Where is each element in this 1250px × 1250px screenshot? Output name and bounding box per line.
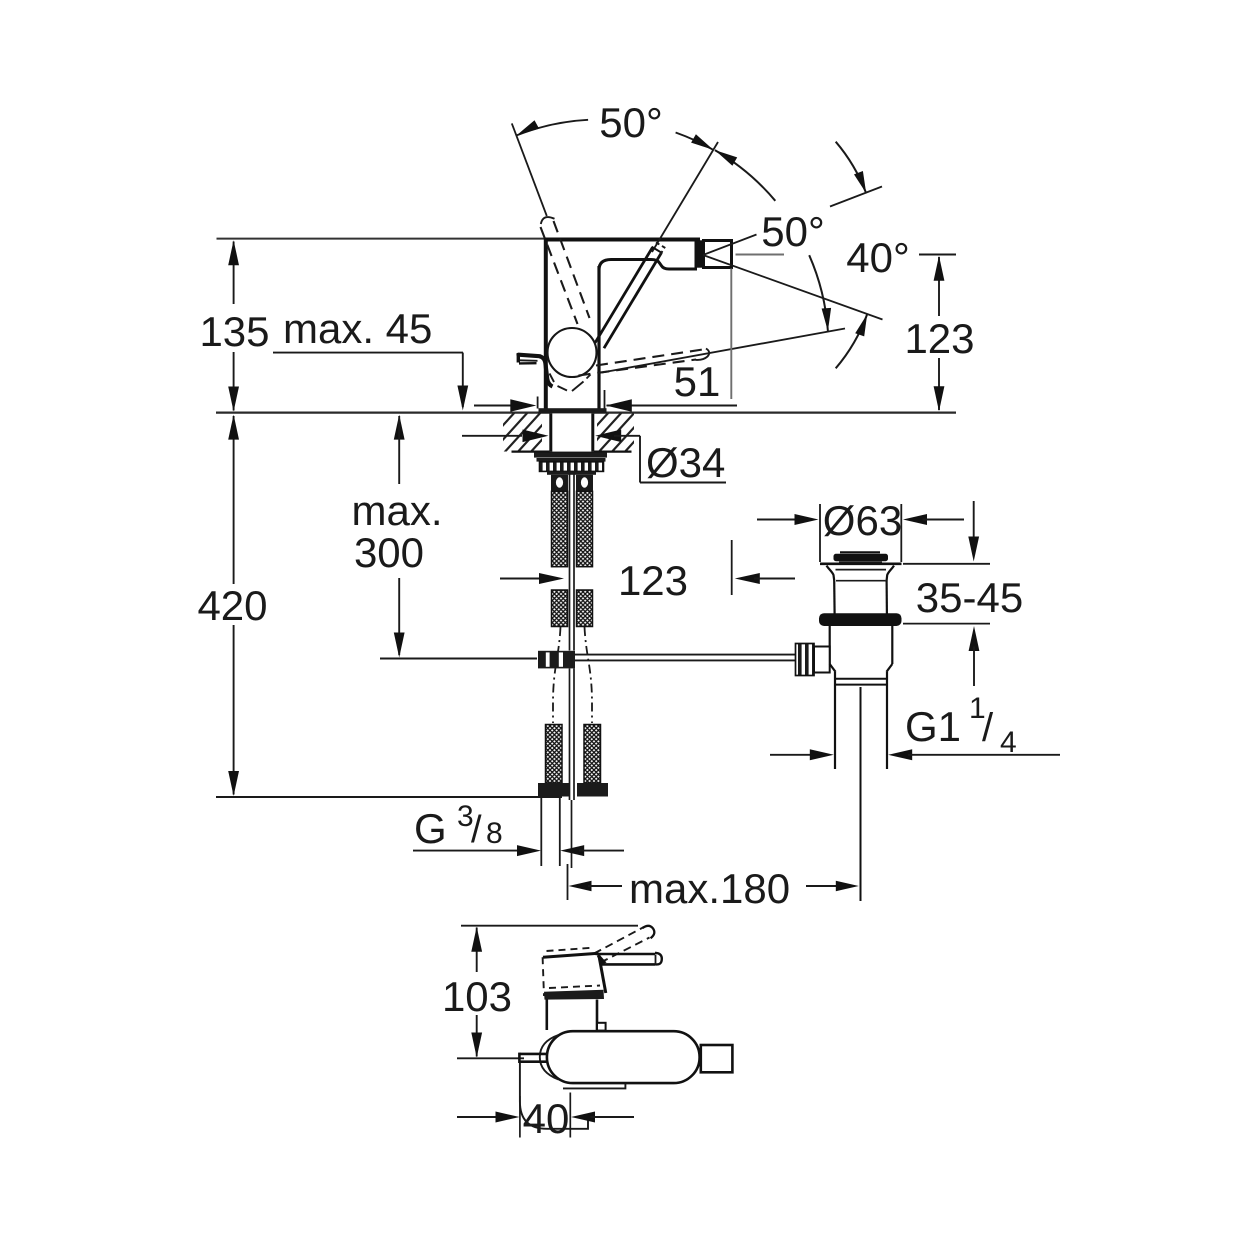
dim line y405 right shaft <box>607 405 738 407</box>
drain side connector <box>814 647 830 673</box>
spout underside with step <box>599 260 697 271</box>
drain body taper left <box>830 664 836 672</box>
hose tail right <box>585 627 593 723</box>
topview upper ref line <box>461 925 638 927</box>
G38 fitting body left <box>546 725 563 784</box>
topview lower ref line <box>457 1057 524 1059</box>
upper 40deg line seg1 <box>703 235 757 256</box>
G38 arrow left-pointing <box>560 845 584 856</box>
pull-rod knob bend <box>540 356 553 386</box>
handle lever outline upper edge <box>604 253 662 348</box>
svg-text:G1: G1 <box>905 703 961 750</box>
handle lever end cap <box>646 247 662 263</box>
hose upper left <box>552 491 568 566</box>
pull-rod knob slot line <box>520 359 538 362</box>
countertop hatch right <box>557 411 688 455</box>
label max300 line1 <box>351 487 442 534</box>
topview neck nub <box>597 1023 606 1031</box>
shank body <box>550 413 595 451</box>
svg-text:8: 8 <box>486 817 503 850</box>
svg-text:Ø63: Ø63 <box>823 497 902 544</box>
dim 123v arrow down <box>934 386 945 411</box>
housing bottom bar <box>544 990 604 1000</box>
label 40 <box>523 1095 570 1142</box>
dashed down-lever end cap <box>696 349 710 360</box>
ball joint circle <box>548 328 597 377</box>
dim line y405 left shaft <box>474 405 517 407</box>
topview aerator nub <box>701 1045 733 1072</box>
G114 arrow right-pointing <box>810 749 834 760</box>
handle tip dashed box <box>656 242 665 254</box>
label 51 <box>674 358 721 405</box>
trumpet ring 1 <box>836 569 887 571</box>
label 123 vertical <box>904 315 974 362</box>
handle lever outline lower edge <box>595 247 653 343</box>
label 40deg <box>846 234 910 281</box>
dashed down-lever lower line <box>579 360 697 376</box>
50deg arc2 upper segment <box>715 150 775 201</box>
washer band 4 <box>547 472 596 475</box>
dim 123v line upper <box>938 257 940 316</box>
label max300 line2 <box>354 529 424 576</box>
40 arrow left-pointing <box>571 1112 595 1123</box>
housing left edge dashed <box>543 957 544 996</box>
horizontal rod lower line <box>575 659 796 661</box>
dim 135 vertical line upper <box>233 242 235 305</box>
horizontal reference line (spout height datum) <box>217 238 548 240</box>
O63 dim left shaft <box>757 519 799 521</box>
max180 arrow left <box>569 881 592 891</box>
max300 arrow down <box>394 633 405 658</box>
housing right edge <box>599 953 606 993</box>
svg-text:123: 123 <box>904 315 974 362</box>
hose connector right <box>576 475 593 492</box>
40deg arc upper arrowhead <box>854 171 866 193</box>
O63 arrow right-pointing <box>795 514 819 525</box>
O63 ext line left <box>819 504 821 562</box>
G38 fitting nut left <box>538 783 569 797</box>
O34 dim right shaft <box>614 435 640 437</box>
housing inner dashed top <box>547 948 593 951</box>
trumpet left outline <box>827 566 835 581</box>
pull-rod knob bottom edge <box>519 362 537 365</box>
tailpipe joint line 2 <box>835 684 887 686</box>
O63 dim right shaft <box>923 519 965 521</box>
35-45 lower tick line <box>903 623 990 625</box>
faucet body top edge <box>544 238 700 242</box>
G114 right shaft <box>908 754 1060 756</box>
construction line T1 <box>512 123 547 216</box>
O34 leader vertical <box>639 436 641 483</box>
50deg arc2 lower segment <box>809 255 828 331</box>
dashed handle cap <box>541 217 555 224</box>
label max. 45 <box>283 305 432 352</box>
hose lower right <box>577 590 593 627</box>
35-45 arrow up <box>969 626 980 651</box>
123h right shaft <box>754 578 795 580</box>
max300 line upper <box>398 416 400 484</box>
O63 arrow left-pointing <box>903 514 927 525</box>
faucet body left edge <box>544 238 548 409</box>
topview solid lever top <box>596 953 656 956</box>
shank left edge <box>549 413 552 451</box>
topview outlet protrusion bottom <box>519 1060 548 1063</box>
max180 arrow right <box>836 881 859 891</box>
label 3545 <box>916 574 1023 621</box>
base plate <box>539 408 607 413</box>
label 103 <box>442 973 512 1020</box>
dashed down-lever upper line <box>596 349 706 366</box>
trumpet side left <box>833 581 836 614</box>
lower 40deg line <box>703 255 883 320</box>
label O63 <box>823 497 902 544</box>
housing top edge <box>543 953 599 957</box>
hose upper right <box>577 491 593 566</box>
hose connector left <box>551 475 568 492</box>
svg-text:51: 51 <box>674 358 721 405</box>
dashed V below ball seg1 <box>550 374 555 383</box>
40deg arc lower piece <box>836 314 868 368</box>
drain side knob <box>796 644 815 676</box>
aerator outline box <box>704 241 732 268</box>
dim 103 arrow down <box>471 1033 482 1058</box>
G38 arrow right-pointing <box>517 845 541 856</box>
dashed handle right edge <box>554 221 590 318</box>
dim 123v line lower <box>938 358 940 410</box>
drain stem line <box>860 687 862 901</box>
35-45 upper tick line <box>903 563 990 565</box>
40 left shaft <box>457 1116 500 1118</box>
label O34 <box>646 439 725 486</box>
pop-up rod line left <box>569 471 571 651</box>
dim 103 arrow up <box>471 927 482 952</box>
label 50deg second <box>761 208 825 255</box>
handle centerline T2 <box>652 142 718 252</box>
svg-text:/: / <box>982 706 994 750</box>
dim 135 arrow up <box>228 240 239 265</box>
max45 leader arrow <box>457 386 468 411</box>
40 ext line right <box>569 1093 571 1138</box>
max300 bottom ref line <box>380 658 537 660</box>
topview dashed lever cap <box>643 926 655 938</box>
max180 ext line left <box>567 864 569 900</box>
svg-text:Ø34: Ø34 <box>646 439 725 486</box>
drain flange <box>819 613 902 626</box>
topview outlet protrusion top <box>519 1053 548 1056</box>
max300 line lower <box>398 578 400 655</box>
faucet body right edge <box>597 266 600 409</box>
label G38 <box>414 800 503 852</box>
O34 leader underline <box>640 482 726 484</box>
O63 ext line right <box>900 504 902 562</box>
housing inner dashed bottom <box>549 986 600 989</box>
svg-text:135: 135 <box>199 308 269 355</box>
trumpet right outline <box>887 566 894 581</box>
plug knob body <box>834 554 889 561</box>
countertop bottom line <box>512 451 632 453</box>
svg-text:50°: 50° <box>761 208 825 255</box>
topview capsule body <box>547 1031 700 1083</box>
svg-text:420: 420 <box>197 582 267 629</box>
G114 left shaft <box>770 754 814 756</box>
50deg arc2 arrowhead upper <box>715 150 737 166</box>
svg-text:40: 40 <box>523 1095 570 1142</box>
max300 arrow up <box>394 415 405 440</box>
50deg arc2 arrowhead lower <box>822 308 832 331</box>
label 420 <box>197 582 267 629</box>
40 right shaft <box>591 1116 635 1118</box>
construction line T3 <box>602 329 845 373</box>
rod below coupler right <box>573 669 575 801</box>
drain body left wall <box>829 626 831 664</box>
max180 right shaft <box>806 885 839 887</box>
pull-rod knob top bar <box>519 355 540 357</box>
trumpet side right <box>885 581 888 614</box>
svg-text:35-45: 35-45 <box>916 574 1023 621</box>
123h left shaft <box>500 578 545 580</box>
420 bottom ref line <box>216 796 562 798</box>
spout axis line left part <box>736 254 785 256</box>
topview dashed lever lower <box>601 938 650 963</box>
G38 stub line left <box>540 798 542 867</box>
dashed V below ball seg4 <box>587 375 591 379</box>
drain body taper right <box>887 664 893 672</box>
baseplate edge below capsule <box>563 1084 625 1089</box>
tailpipe joint line 1 <box>835 678 887 680</box>
O34 arrow left-pointing <box>595 430 621 443</box>
50deg arc1 right segment <box>676 133 714 150</box>
topview lever cap tick <box>655 955 657 965</box>
G38 dim right shaft <box>579 850 624 852</box>
svg-text:50°: 50° <box>599 99 663 146</box>
40deg arc lower arrowhead <box>855 314 867 336</box>
50deg arc1 arrowhead right <box>691 134 713 150</box>
washer band 2 <box>537 458 606 462</box>
max45 leader vertical <box>462 353 464 407</box>
tailpipe left wall <box>834 672 836 769</box>
51 extension line (aerator tip) <box>730 269 732 400</box>
horizontal rod upper line <box>575 654 796 656</box>
capsule left double arc <box>540 1035 559 1080</box>
hose tail left <box>553 627 561 723</box>
123h arrow left-pointing <box>735 573 760 584</box>
G38 fitting body right <box>584 725 601 784</box>
dashed V below ball seg3 <box>572 382 584 392</box>
svg-text:40°: 40° <box>846 234 910 281</box>
40 ext line left <box>519 1096 521 1138</box>
upper 40deg line seg2 <box>830 187 882 207</box>
svg-text:123: 123 <box>618 557 688 604</box>
hose lower left <box>552 590 568 627</box>
svg-text:max.: max. <box>351 487 442 534</box>
G114 label <box>905 692 1017 759</box>
drain top plane line <box>820 562 902 565</box>
G38 fitting nut right <box>577 783 608 797</box>
40 arrow right-pointing <box>496 1112 520 1123</box>
max45 arrow right-pointing <box>510 399 536 412</box>
dashed handle left edge <box>541 227 578 324</box>
35-45 lower line <box>973 647 975 687</box>
svg-text:max.180: max.180 <box>629 865 790 912</box>
spout axis line right part <box>919 254 956 256</box>
label 123 horizontal <box>618 557 688 604</box>
svg-text:max. 45: max. 45 <box>283 305 432 352</box>
svg-text:/: / <box>471 809 482 851</box>
washer band 1 <box>534 452 607 457</box>
svg-text:300: 300 <box>354 529 424 576</box>
knurled nut <box>540 462 604 472</box>
50deg arc1 arrowhead left <box>517 120 540 135</box>
dim 103 line lower <box>476 1015 478 1057</box>
topview dashed lever upper <box>594 928 643 954</box>
countertop hatch left <box>463 411 594 455</box>
420 line lower <box>233 625 235 795</box>
topview lever root wedge <box>597 954 607 965</box>
pull-rod knob left cap <box>517 353 520 363</box>
label 135 <box>199 308 269 355</box>
dim 135 vertical line lower <box>233 352 235 411</box>
420 arrow down <box>228 771 239 796</box>
O34 dim left shaft <box>462 435 522 437</box>
trumpet ring 2 <box>836 580 886 582</box>
dim 123v arrow up <box>934 256 945 281</box>
shank right edge <box>591 413 594 451</box>
label max180 <box>629 865 790 912</box>
aerator joint black band <box>695 240 704 267</box>
plug knob top plate <box>840 551 880 553</box>
topview neck left <box>545 1000 548 1031</box>
topview solid lever bottom <box>602 963 655 966</box>
max45 underline <box>273 352 463 354</box>
35-45 upper line <box>973 501 975 539</box>
topview J-hook <box>520 1062 588 1128</box>
rod below coupler left <box>569 669 571 801</box>
svg-text:103: 103 <box>442 973 512 1020</box>
40deg arc upper piece <box>836 142 867 194</box>
rod coupler block <box>538 651 575 669</box>
max180 left shaft <box>588 885 622 887</box>
rod lower single line <box>571 800 573 868</box>
topview neck right <box>596 1000 599 1031</box>
max45 ext line right <box>604 390 606 409</box>
50deg arc1 left segment <box>517 120 589 136</box>
dashed V below ball seg2 <box>558 386 568 391</box>
123h arrow right-pointing <box>539 573 564 584</box>
drain body right wall <box>891 626 893 664</box>
420 arrow up <box>228 415 239 440</box>
dim 135 arrow down <box>228 387 239 412</box>
51 arrow left-pointing <box>606 399 632 412</box>
G38 dim left shaft <box>413 850 522 852</box>
123h extension line <box>731 540 733 595</box>
svg-text:G: G <box>414 805 447 852</box>
35-45 arrow down <box>968 537 979 562</box>
label 50deg first <box>599 99 663 146</box>
max45 ext line left <box>537 397 539 409</box>
topview outlet protrusion cap <box>518 1053 521 1063</box>
dim 103 line upper <box>476 928 478 973</box>
420 line upper <box>233 416 235 584</box>
mounting plane line <box>216 412 956 414</box>
plug knob underline <box>839 561 882 563</box>
G114 arrow left-pointing <box>888 749 912 760</box>
pop-up rod line right <box>573 471 575 651</box>
G38 stub line right <box>559 798 561 867</box>
O34 arrow right-pointing <box>523 430 549 443</box>
tailpipe right wall <box>886 672 888 769</box>
topview solid lever cap <box>655 953 662 965</box>
